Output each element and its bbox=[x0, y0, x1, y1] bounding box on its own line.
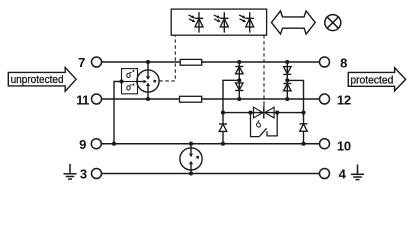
wire: thermal disconnect to line 9 bbox=[114, 82, 122, 144]
junction on line 9 at V3 bbox=[221, 142, 225, 146]
svg-text:9: 9 bbox=[79, 137, 86, 152]
dashed link: GDT to indicator box bbox=[159, 35, 175, 81]
svg-text:unprotected: unprotected bbox=[11, 74, 64, 86]
wire: line 9 down to GDT F2 bbox=[190, 144, 192, 154]
wire: V2 midpoint to rail bbox=[287, 80, 303, 112]
terminal 12 bbox=[320, 93, 351, 108]
junction on line 7 at V1 bbox=[237, 60, 241, 64]
junction on line 7 at V2 bbox=[285, 60, 289, 64]
junction rail at TVS right bbox=[275, 111, 279, 115]
junction on line 9 at thermal wire bbox=[112, 142, 116, 146]
junction at thermal disconnect bbox=[119, 79, 123, 83]
lamp (fault indicator) bbox=[325, 15, 341, 31]
terminal 3 bbox=[80, 167, 102, 182]
LED D3 bbox=[239, 12, 254, 32]
wire: line 7 down to GDT bbox=[147, 62, 149, 76]
junction on line 7 at GDT bbox=[146, 60, 150, 64]
unprotected flow arrow bbox=[8, 67, 76, 91]
terminal 7 bbox=[78, 55, 101, 70]
junction on line 9 at V4 bbox=[301, 142, 305, 146]
diode pair V2 (right, anti-series) bbox=[283, 62, 291, 99]
wire line 11-12 bbox=[102, 98, 320, 100]
wire: GDT down to line 11 bbox=[147, 86, 149, 99]
wire: center rail bbox=[223, 112, 304, 114]
dashed link: TVS to indicator box bbox=[263, 35, 265, 103]
junction rail right bbox=[301, 111, 305, 115]
ground (right) bbox=[351, 164, 364, 179]
gas discharge tube F2 (2-electrode) bbox=[180, 148, 202, 170]
svg-text:12: 12 bbox=[337, 93, 351, 108]
ground (left) bbox=[64, 164, 77, 179]
wire: V1 midpoint to rail bbox=[223, 80, 239, 112]
wire: GDT F2 down to line 3-4 bbox=[190, 164, 192, 174]
theta mark of thermal switch bbox=[255, 120, 262, 127]
svg-text:7: 7 bbox=[78, 55, 85, 70]
junction rail at TVS left bbox=[248, 111, 252, 115]
gas discharge tube F1 (3-electrode) bbox=[137, 70, 159, 92]
status indicator box bbox=[171, 9, 266, 35]
svg-text:11: 11 bbox=[76, 92, 89, 107]
junction on line 11 at V1 bbox=[237, 97, 241, 101]
junction on line 11 at GDT bbox=[146, 97, 150, 101]
svg-text:protected: protected bbox=[350, 74, 393, 86]
LED D2 bbox=[214, 12, 229, 32]
junction on line 3-4 at F2 bbox=[189, 171, 193, 175]
terminal 8 bbox=[320, 55, 348, 70]
junction rail left bbox=[221, 111, 225, 115]
junction V2 midpoint bbox=[285, 78, 289, 82]
diode pair V1 (left, anti-series) bbox=[235, 62, 243, 99]
wire line 9-10 bbox=[101, 143, 319, 145]
junction on line 11 at V2 bbox=[285, 97, 289, 101]
terminal 10 bbox=[320, 139, 351, 154]
thermal switch under TVS bbox=[251, 113, 278, 137]
resistor R2 bbox=[180, 96, 202, 102]
wire line 7-8 bbox=[102, 61, 320, 63]
svg-text:10: 10 bbox=[337, 139, 351, 154]
terminal 4 bbox=[320, 167, 347, 182]
LED D1 bbox=[188, 12, 203, 32]
svg-text:3: 3 bbox=[80, 167, 87, 182]
junction on line 9 at F2 bbox=[189, 142, 193, 146]
diode V4 (right lower) bbox=[300, 113, 308, 144]
junction V1 midpoint bbox=[237, 78, 241, 82]
svg-text:8: 8 bbox=[340, 55, 347, 70]
resistor R1 bbox=[180, 59, 202, 65]
thermal disconnect (double) bbox=[122, 69, 138, 94]
wire line 3-4 bbox=[102, 173, 320, 175]
protected flow arrow bbox=[348, 68, 405, 91]
diode V3 (left lower) bbox=[219, 113, 227, 144]
svg-text:4: 4 bbox=[339, 167, 347, 182]
double arrow (remote indication) bbox=[272, 11, 316, 34]
terminal 11 bbox=[76, 92, 101, 107]
TVS suppressor (bidirectional) bbox=[254, 107, 275, 119]
terminal 9 bbox=[79, 137, 101, 152]
